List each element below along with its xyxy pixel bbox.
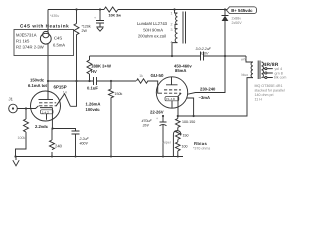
svg-text:100: 100	[182, 144, 188, 148]
svg-text:stacked for parallel: stacked for parallel	[255, 89, 285, 93]
svg-text:11 H: 11 H	[255, 98, 263, 102]
svg-text:14: 14	[63, 90, 67, 94]
svg-text:6.5mA: 6.5mA	[53, 42, 65, 47]
svg-text:150vdc: 150vdc	[30, 77, 45, 82]
svg-text:2W: 2W	[82, 29, 88, 33]
svg-text:+: +	[94, 16, 96, 20]
svg-text:+: +	[156, 117, 158, 121]
svg-text:C4S: C4S	[54, 36, 62, 41]
svg-text:2: 2	[171, 23, 173, 27]
svg-text:3: 3	[171, 28, 173, 32]
svg-text:100k: 100k	[18, 136, 26, 140]
svg-text:0.1uF: 0.1uF	[87, 86, 98, 91]
svg-text:400V: 400V	[80, 142, 89, 146]
svg-text:2.2uF: 2.2uF	[79, 137, 90, 141]
svg-text:6.1mA tot: 6.1mA tot	[28, 83, 48, 88]
svg-text:10K 3w: 10K 3w	[109, 13, 122, 17]
svg-text:2x56V: 2x56V	[232, 21, 243, 25]
svg-text:wht: wht	[241, 57, 247, 61]
svg-text:200ohm ex.coil: 200ohm ex.coil	[138, 34, 166, 39]
svg-text:C4S with Heatsink: C4S with Heatsink	[20, 24, 69, 29]
svg-text:150: 150	[183, 133, 189, 137]
svg-text:MJE5731A: MJE5731A	[16, 32, 37, 37]
svg-text:100vdc: 100vdc	[86, 107, 101, 112]
svg-text:150k: 150k	[115, 92, 123, 96]
svg-text:blue: blue	[242, 73, 249, 77]
svg-text:R2 374R 2-3W: R2 374R 2-3W	[16, 44, 44, 49]
svg-text:85mA: 85mA	[175, 68, 186, 73]
svg-text:grn 8: grn 8	[275, 71, 283, 75]
svg-text:Lundahl LL2743: Lundahl LL2743	[137, 21, 168, 26]
svg-text:230-240: 230-240	[200, 87, 216, 92]
svg-text:240: 240	[55, 143, 63, 148]
svg-text:1k: 1k	[139, 74, 143, 78]
svg-text:2x88v: 2x88v	[232, 16, 242, 20]
svg-text:MQ OT365E-4R1: MQ OT365E-4R1	[255, 84, 283, 88]
svg-text:J1: J1	[9, 97, 14, 102]
svg-text:GU-50: GU-50	[151, 73, 164, 78]
svg-text:6P15P: 6P15P	[54, 84, 67, 89]
svg-text:140 ohm pri: 140 ohm pri	[255, 93, 274, 97]
svg-text:blk com: blk com	[274, 76, 286, 80]
svg-text:1.26mA: 1.26mA	[86, 101, 101, 106]
svg-text:1: 1	[171, 12, 173, 16]
svg-text:630V: 630V	[200, 52, 209, 56]
svg-text:F1 4.8: F1 4.8	[166, 97, 175, 101]
svg-text:HV: HV	[91, 69, 97, 74]
svg-text:~3mA: ~3mA	[199, 95, 211, 100]
svg-text:4: 4	[171, 41, 173, 45]
svg-text:50H 90mA: 50H 90mA	[143, 27, 163, 32]
svg-text:1-4.2: 1-4.2	[42, 110, 49, 114]
svg-text:470uF: 470uF	[142, 119, 153, 123]
svg-text:yel 4: yel 4	[275, 67, 283, 71]
svg-text:3.0-2.2uF: 3.0-2.2uF	[196, 47, 212, 51]
svg-text:22-26V: 22-26V	[150, 109, 164, 114]
svg-text:100-150: 100-150	[182, 120, 195, 124]
svg-text:Rbias: Rbias	[194, 141, 207, 146]
svg-text:188K 3+W: 188K 3+W	[91, 63, 111, 68]
svg-text:*435v: *435v	[50, 14, 59, 18]
svg-text:wiper: wiper	[162, 141, 171, 145]
svg-text:35V: 35V	[143, 124, 150, 128]
svg-text:R1 1k5: R1 1k5	[16, 38, 30, 43]
svg-text:*370 ohms: *370 ohms	[193, 146, 210, 150]
svg-text:B+ 545vdc: B+ 545vdc	[231, 8, 253, 13]
svg-text:2.2vdc: 2.2vdc	[35, 124, 49, 129]
